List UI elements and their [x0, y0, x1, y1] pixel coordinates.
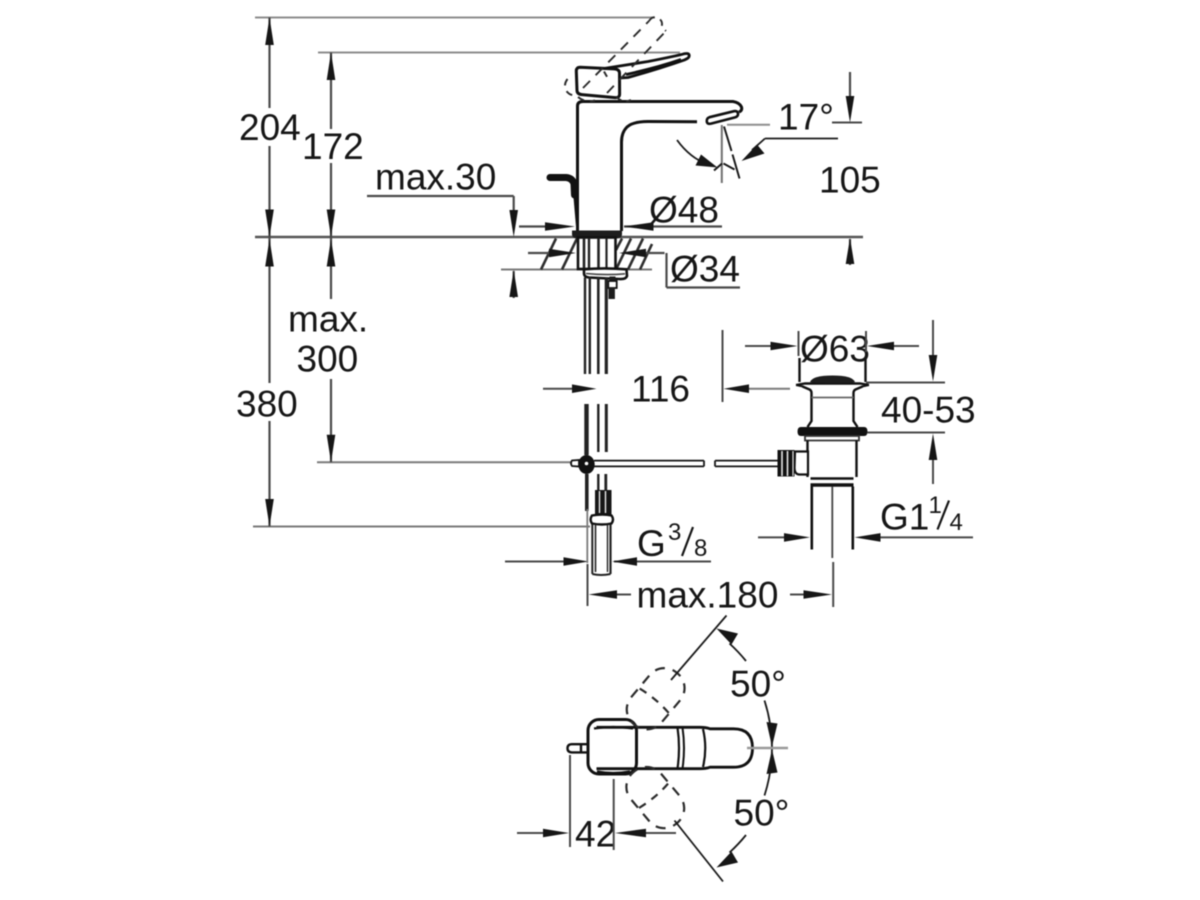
svg-text:40-53: 40-53 [881, 390, 976, 431]
hose end fitting flange [591, 515, 613, 525]
mounting washer under counter [584, 268, 627, 279]
connection nipple G3/8 [592, 525, 610, 576]
hose-end reference line (380 bottom) [253, 526, 590, 528]
svg-text:17°: 17° [778, 97, 834, 138]
dimension 204 vertical line [270, 18, 332, 527]
svg-text:50°: 50° [730, 664, 786, 705]
plug dome (dark) [810, 376, 855, 384]
svg-text:max.180: max.180 [637, 575, 779, 616]
svg-text:380: 380 [236, 384, 298, 425]
pop-up pull rod knob (left of body) [550, 178, 578, 231]
valve body [808, 441, 857, 478]
svg-text:300: 300 [297, 339, 359, 380]
side inlet port [778, 450, 809, 477]
lower 50deg ray [675, 821, 724, 882]
svg-text:1: 1 [929, 492, 942, 519]
swivel arc arrow (left) [677, 140, 708, 165]
pop-up plug cap [796, 358, 869, 387]
seal washer below [805, 436, 859, 441]
handle raised position (dashed phantom) [565, 17, 666, 101]
dimension 380 vertical line [268, 237, 270, 383]
stream V strokes [714, 164, 735, 171]
upper 50deg ray [671, 616, 727, 681]
reference line top (204 level) [253, 18, 863, 527]
swivel arc upper [730, 644, 747, 662]
svg-text:116: 116 [631, 369, 690, 410]
leader from aerator to 17deg label [727, 124, 770, 126]
threaded shank through countertop [578, 238, 616, 270]
svg-text:Ø63: Ø63 [800, 329, 870, 370]
svg-text:204: 204 [239, 107, 301, 148]
countertop hatching right of shank [616, 239, 652, 270]
valve neck [803, 387, 863, 428]
pop-up rod upper stub with joint [608, 277, 616, 300]
svg-text:G1: G1 [880, 497, 929, 538]
pull rod stub (plan) [568, 744, 589, 752]
countertop hatching left of shank [541, 239, 577, 270]
svg-text:G: G [637, 523, 666, 564]
tilted stream axis 17deg [724, 127, 740, 179]
svg-text:4: 4 [950, 509, 963, 536]
svg-text:Ø34: Ø34 [670, 249, 740, 290]
hose end fitting nut [595, 490, 612, 515]
svg-text:42: 42 [575, 814, 616, 855]
dashed lever rotated up 50deg [619, 660, 692, 737]
vertical stream reference line [721, 125, 723, 183]
svg-text:3: 3 [668, 519, 681, 546]
horizontal pop-up actuating rod [594, 461, 778, 467]
dashed lever rotated down 50deg [619, 759, 692, 836]
base plinth [572, 231, 622, 239]
svg-text:105: 105 [819, 160, 881, 201]
dimension G 3/8 [505, 561, 711, 563]
arrowheads for 204 / 172 / 380 / max300 [265, 18, 335, 527]
tailpipe [812, 487, 853, 559]
arc arrowheads [717, 629, 778, 868]
svg-text:max.: max. [288, 299, 368, 340]
dimension 172 vertical line [330, 53, 332, 130]
dimension max.300 vertical line [330, 237, 332, 299]
handle cap (solid, side view) [576, 67, 619, 97]
handle back cap (plan) [588, 720, 637, 775]
svg-text:max.30: max.30 [375, 157, 496, 198]
handle lever (solid, side view) [604, 53, 689, 78]
spout aerator (tilted) [707, 111, 738, 124]
pull-rod level reference line (max.300 bottom) [317, 461, 571, 463]
swivel arc lower [765, 748, 773, 796]
rubber seal ring (black band) [798, 427, 868, 436]
handle lever (plan) [597, 727, 753, 768]
reference line handle-tip (172 level) [318, 52, 680, 54]
svg-text:50°: 50° [734, 793, 790, 834]
dimension G 1 1/4 [758, 536, 973, 538]
supply hoses below counter [585, 278, 606, 512]
countertop underside line [501, 269, 652, 271]
countertop surface line [255, 236, 863, 239]
svg-text:8: 8 [694, 535, 707, 562]
centerline right [747, 747, 788, 749]
body-tailpipe joint [811, 479, 854, 486]
pull-rod pivot node [571, 455, 595, 474]
faucet body outline with spout [578, 102, 742, 232]
svg-text:Ø48: Ø48 [649, 190, 719, 231]
svg-text:172: 172 [302, 126, 364, 167]
